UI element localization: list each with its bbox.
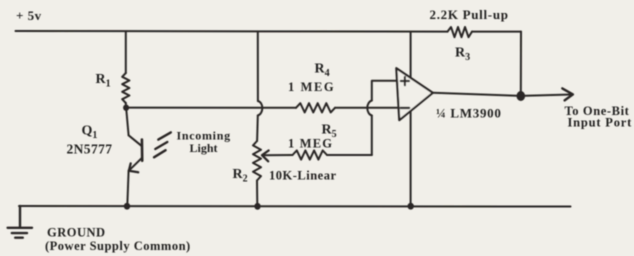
op-amp U1 triangle — [396, 68, 433, 120]
op-amp plus sign — [401, 77, 409, 85]
svg-text:10K-Linear: 10K-Linear — [269, 169, 337, 183]
potentiometer wiper arrow — [262, 154, 292, 156]
svg-text:¼ LM3900: ¼ LM3900 — [436, 106, 502, 121]
wire op-amp output to arrow — [433, 93, 571, 96]
transistor Q1 emitter diagonal with arrow — [129, 158, 142, 171]
transistor Q1 base bar — [141, 140, 144, 161]
incoming light ray 3 — [154, 150, 166, 157]
potentiometer R2 zigzag — [253, 141, 261, 181]
wire corner down to output node — [520, 32, 522, 96]
ground symbol — [8, 206, 32, 238]
svg-text:Light: Light — [190, 141, 218, 155]
svg-text:2.2K Pull-up: 2.2K Pull-up — [430, 7, 509, 22]
node dot R2 at ground — [254, 203, 260, 210]
resistor R1 zigzag — [122, 73, 129, 103]
svg-text:Input Port: Input Port — [568, 116, 633, 130]
resistor R4 zigzag — [296, 103, 335, 112]
wire Q1 emitter down to ground — [127, 171, 128, 207]
wire node to Q1 collector — [126, 109, 128, 136]
wire R5 to riser — [327, 154, 372, 156]
transistor Q1 collector diagonal — [129, 135, 142, 145]
wire R1 bottom to node — [125, 103, 127, 108]
wire riser up to hop — [371, 116, 373, 156]
wire rail to corner — [472, 31, 521, 33]
svg-text:1 MEG: 1 MEG — [288, 137, 333, 151]
svg-text:+ 5v: + 5v — [16, 8, 42, 23]
wire R4 to op-amp inverting input — [335, 107, 398, 109]
wire +5v down to hop — [257, 32, 259, 102]
svg-text:(Power Supply Common): (Power Supply Common) — [45, 239, 191, 253]
incoming light ray 1 — [158, 132, 171, 139]
resistor R3 zigzag — [448, 27, 473, 37]
op-amp minus sign — [401, 107, 409, 109]
node dot output junction — [517, 91, 526, 101]
node dot Q1 emitter at ground — [124, 203, 130, 210]
wire +5v top rail — [16, 30, 448, 33]
svg-text:1 MEG: 1 MEG — [288, 80, 335, 94]
wire +5v down to R1 — [125, 32, 127, 74]
wire hop over R4 line — [258, 101, 263, 116]
incoming light ray 2 — [155, 142, 167, 149]
wire ground rail — [19, 205, 571, 208]
node dot mid vertical at ground — [408, 203, 414, 210]
wire R2 bottom to ground — [256, 181, 258, 207]
wire hop to R2 top — [256, 116, 259, 142]
wire riser top to non-inverting input — [372, 81, 397, 101]
node dot R1/R4 junction — [123, 105, 129, 111]
svg-text:2N5777: 2N5777 — [67, 141, 113, 156]
output arrowhead — [562, 88, 573, 100]
wire node to R4 — [126, 107, 296, 109]
resistor R5 zigzag — [293, 150, 328, 159]
wire +5v down through op-amp to ground — [410, 33, 412, 207]
wire hop over R4 wire — [367, 101, 372, 116]
svg-text:GROUND: GROUND — [47, 226, 106, 240]
